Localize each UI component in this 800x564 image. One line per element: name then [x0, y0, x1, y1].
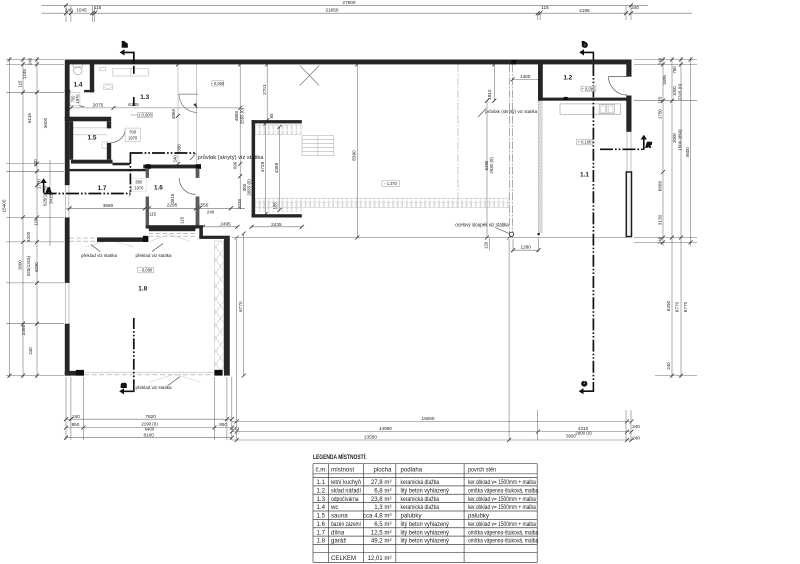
- svg-text:240: 240: [33, 159, 38, 167]
- svg-text:3200: 3200: [26, 231, 31, 242]
- svg-text:průvlak (skrytý) viz statika: průvlak (skrytý) viz statika: [198, 154, 264, 161]
- left dimension chains: [9, 57, 11, 378]
- door 1.6 west: [129, 180, 145, 196]
- window west 1.7 opening: [64, 185, 66, 217]
- svg-text:cca 4,8 m²: cca 4,8 m²: [363, 513, 391, 520]
- svg-text:ocelový sloupek viz statika: ocelový sloupek viz statika: [455, 222, 509, 228]
- svg-text:240: 240: [658, 236, 663, 244]
- svg-text:12,01 m²: 12,01 m²: [367, 555, 391, 562]
- svg-text:240: 240: [28, 57, 33, 65]
- svg-text:1970: 1970: [128, 135, 138, 140]
- svg-text:850: 850: [219, 422, 227, 427]
- svg-text:8100: 8100: [143, 432, 154, 437]
- wc toilet: [73, 64, 83, 67]
- svg-text:115: 115: [180, 216, 185, 224]
- svg-text:1.2: 1.2: [317, 487, 326, 494]
- svg-text:místnost: místnost: [331, 466, 354, 473]
- section line C: [592, 64, 594, 382]
- right dimension chains: [662, 57, 664, 246]
- svg-text:3415: 3415: [49, 194, 54, 204]
- svg-text:- 1,370: - 1,370: [384, 181, 397, 186]
- svg-text:1000: 1000: [672, 86, 677, 96]
- svg-text:6115: 6115: [27, 113, 32, 123]
- svg-text:240: 240: [632, 435, 640, 440]
- svg-text:průvlak (skrytý) viz statika: průvlak (skrytý) viz statika: [485, 108, 537, 114]
- gray projection band of wall 1.2: [538, 101, 543, 233]
- svg-text:15400: 15400: [2, 199, 7, 212]
- partition thin lines room 1.3: [177, 64, 179, 163]
- door stop square 1.2: [564, 97, 568, 100]
- svg-text:1750: 1750: [658, 109, 663, 119]
- svg-text:240: 240: [631, 5, 639, 10]
- garage door opening dashes: [84, 371, 214, 373]
- section line A middle: [130, 152, 196, 154]
- vertical dim 1810: [493, 64, 495, 100]
- svg-text:1700: 1700: [37, 179, 42, 189]
- door label 800/1970 1.6 (horizontal): [132, 178, 147, 191]
- svg-text:85: 85: [269, 113, 274, 118]
- garage west wall lower: [65, 324, 70, 376]
- section marker Cp: [582, 52, 593, 60]
- svg-text:6290: 6290: [666, 300, 671, 311]
- svg-text:1280: 1280: [520, 245, 531, 250]
- dim 1400: [513, 78, 541, 80]
- section marker C: [582, 382, 594, 391]
- svg-text:2000: 2000: [672, 133, 677, 143]
- svg-text:115: 115: [658, 96, 663, 104]
- svg-text:ker.obklad v= 1500mm + malba: ker.obklad v= 1500mm + malba: [468, 496, 536, 503]
- svg-text:4729: 4729: [260, 161, 265, 172]
- top dimension chain row2: [42, 12, 693, 14]
- garage north wall east part: [199, 236, 230, 239]
- svg-text:27,8 m²: 27,8 m²: [371, 479, 392, 486]
- svg-text:B’: B’: [123, 41, 129, 47]
- svg-text:překlad viz statika: překlad viz statika: [136, 253, 172, 258]
- svg-text:± 0,000: ± 0,000: [138, 113, 152, 118]
- left outer wall upper: [65, 60, 70, 186]
- garage south wall pieces: [65, 371, 84, 376]
- dim line 2075/6185: [66, 107, 240, 109]
- bottom dimension chains: [66, 418, 232, 420]
- svg-text:185: 185: [273, 202, 278, 210]
- section line B top: [133, 52, 135, 75]
- svg-text:7620: 7620: [145, 414, 156, 419]
- door label 700/1970 wc: [70, 92, 80, 105]
- svg-text:C’: C’: [583, 41, 589, 47]
- svg-text:1045: 1045: [76, 8, 87, 13]
- section line A left: [44, 193, 131, 195]
- sauna 1.5 north wall: [65, 117, 111, 122]
- svg-text:- 0,080: - 0,080: [139, 268, 152, 273]
- svg-text:překlad viz statika: překlad viz statika: [136, 385, 172, 390]
- svg-text:4195: 4195: [579, 8, 590, 13]
- 1.6 east wall: [196, 168, 200, 178]
- svg-text:keramická dlažba: keramická dlažba: [401, 496, 440, 503]
- svg-text:12,5 m²: 12,5 m²: [371, 529, 392, 536]
- svg-text:odpočívárna: odpočívárna: [331, 496, 359, 503]
- steel column dot near 1.2: [538, 233, 540, 235]
- svg-text:garáž: garáž: [331, 538, 346, 545]
- X cross mark: [300, 66, 319, 86]
- 1.2 south wall: [538, 98, 627, 101]
- kitchen counter: [560, 104, 621, 114]
- sauna 1.5 south wall: [71, 160, 113, 164]
- right outer wall mid segment: [626, 96, 631, 132]
- door sauna 1.5: [111, 128, 125, 142]
- vertical dim 8390: [356, 64, 358, 237]
- svg-text:keramická dlažba: keramická dlažba: [401, 479, 440, 486]
- svg-text:1970: 1970: [75, 94, 80, 104]
- svg-text:240: 240: [658, 57, 663, 65]
- svg-text:1.3: 1.3: [317, 496, 326, 503]
- B axis dot on top wall: [133, 61, 135, 63]
- svg-text:6400: 6400: [145, 427, 155, 432]
- svg-text:LEGENDA MÍSTNOSTÍ:: LEGENDA MÍSTNOSTÍ:: [313, 453, 367, 461]
- svg-text:2315 (0): 2315 (0): [678, 83, 683, 100]
- 1.7 north wall: [70, 169, 147, 171]
- svg-text:1.1: 1.1: [317, 479, 326, 486]
- wc 1.4 east wall: [90, 60, 94, 93]
- svg-text:1695: 1695: [662, 75, 667, 85]
- svg-text:1.1: 1.1: [580, 171, 589, 178]
- svg-text:240: 240: [28, 347, 33, 355]
- 1.6 north wall: [143, 165, 201, 169]
- svg-text:600: 600: [232, 161, 237, 169]
- door partition 1.3: [179, 93, 199, 95]
- svg-text:1970: 1970: [134, 186, 144, 191]
- svg-text:240: 240: [666, 362, 671, 370]
- svg-text:120: 120: [484, 241, 489, 249]
- svg-text:+ 0,095: + 0,095: [582, 86, 596, 91]
- svg-text:2701: 2701: [262, 84, 267, 95]
- garage lintel diagonals: [150, 234, 170, 242]
- svg-text:omítka vápenno-štuková, malba: omítka vápenno-štuková, malba: [468, 538, 539, 545]
- svg-text:1.6: 1.6: [317, 521, 326, 528]
- svg-text:240: 240: [632, 424, 640, 429]
- dim 1280: [513, 249, 539, 251]
- svg-text:ker.obklad v= 1500mm + malba: ker.obklad v= 1500mm + malba: [468, 479, 536, 486]
- svg-text:8390: 8390: [352, 150, 357, 161]
- svg-text:- 0,060: - 0,060: [211, 81, 224, 86]
- furniture room 1.3 benches: [113, 68, 131, 76]
- doors: [70, 77, 627, 197]
- svg-text:800: 800: [135, 180, 143, 185]
- garage west wall upper: [65, 217, 70, 283]
- pool inner dims 4729/4369: [265, 123, 267, 214]
- svg-text:6770: 6770: [683, 301, 688, 312]
- garage-1.6 connector wall: [199, 225, 203, 237]
- level boxes: [138, 112, 153, 117]
- section line A right: [600, 148, 644, 150]
- svg-text:6680: 6680: [658, 180, 663, 191]
- in-plan dimensions: [66, 62, 542, 377]
- svg-text:2030: 2030: [237, 198, 242, 209]
- section marker Ap: [643, 138, 645, 150]
- svg-text:6,5 m²: 6,5 m²: [374, 521, 391, 528]
- svg-text:3130: 3130: [658, 214, 663, 225]
- dim line 3680/2295/1550: [66, 207, 245, 209]
- svg-text:2930 (0): 2930 (0): [489, 157, 494, 174]
- svg-text:litý beton vyhlazený: litý beton vyhlazený: [401, 538, 450, 545]
- svg-text:1810: 1810: [487, 89, 492, 100]
- svg-text:litý beton vyhlazený: litý beton vyhlazený: [401, 529, 450, 536]
- svg-text:625(1315): 625(1315): [26, 255, 31, 276]
- svg-text:6290: 6290: [34, 262, 39, 272]
- 1.6 west wall: [146, 168, 149, 178]
- svg-text:B: B: [122, 382, 128, 387]
- section lines: [40, 41, 652, 394]
- svg-text:1400: 1400: [520, 74, 531, 79]
- svg-text:27600: 27600: [342, 0, 355, 5]
- wall stub east of 1.5: [113, 163, 130, 166]
- door 1.2: [609, 76, 628, 78]
- svg-text:ker.obklad v= 1500mm + malba: ker.obklad v= 1500mm + malba: [468, 504, 536, 511]
- dimension chains: [2, 0, 698, 442]
- svg-text:palubky: palubky: [401, 513, 423, 520]
- stairs: [302, 136, 334, 156]
- svg-text:240: 240: [207, 210, 215, 215]
- section marker A: [43, 181, 45, 193]
- svg-text:2900 (0): 2900 (0): [575, 431, 592, 436]
- svg-text:1,3 m²: 1,3 m²: [374, 504, 391, 511]
- right outer wall top segment: [626, 60, 631, 77]
- svg-text:115: 115: [18, 80, 23, 88]
- svg-text:wc: wc: [330, 504, 338, 511]
- top outer wall: [66, 60, 632, 65]
- 1.6 south wall: [146, 225, 200, 228]
- terrace south edge line: [232, 237, 627, 239]
- svg-text:povrch stěn: povrch stěn: [468, 466, 496, 473]
- door 1.6 east: [179, 178, 196, 195]
- svg-text:keramická dlažba: keramická dlažba: [401, 504, 440, 511]
- door label 700/1970 sauna (horizontal): [125, 128, 140, 141]
- svg-text:podlaha: podlaha: [401, 466, 423, 473]
- svg-text:+ 0,100: + 0,100: [578, 140, 592, 145]
- svg-text:2555 (0): 2555 (0): [240, 107, 245, 124]
- svg-text:letní kuchyň: letní kuchyň: [331, 479, 361, 486]
- svg-text:omítka vápenno-štuková, malba: omítka vápenno-štuková, malba: [468, 487, 539, 494]
- svg-text:1550: 1550: [198, 203, 209, 208]
- vertical dim 4860/2350: [176, 62, 180, 66]
- svg-text:palubky: palubky: [468, 513, 490, 520]
- svg-text:49,2 m²: 49,2 m²: [371, 538, 392, 545]
- svg-text:14950: 14950: [379, 426, 392, 431]
- svg-text:2815: 2815: [170, 193, 175, 203]
- hidden beam line left of 1.1: [457, 64, 459, 207]
- svg-text:6480: 6480: [484, 160, 489, 170]
- section marker Bp: [123, 52, 134, 60]
- section line A jog vertical: [129, 153, 131, 194]
- 1.2 west wall: [538, 60, 543, 101]
- washbasin: [104, 84, 113, 90]
- vertical dim 2701: [266, 64, 268, 120]
- svg-text:19260: 19260: [421, 416, 434, 421]
- pool deck band: [255, 198, 509, 207]
- svg-text:2495: 2495: [220, 222, 231, 227]
- garage right wall: [224, 239, 230, 376]
- dotted projection line of wall 1.2: [538, 101, 540, 237]
- svg-text:6770: 6770: [238, 301, 243, 312]
- svg-text:240: 240: [172, 155, 177, 163]
- right outer wall pillar segment: [626, 172, 631, 237]
- svg-text:240: 240: [72, 414, 80, 419]
- svg-text:1.8: 1.8: [138, 286, 147, 293]
- svg-text:1.4: 1.4: [74, 81, 83, 88]
- sauna 1.5 east wall: [107, 121, 111, 128]
- svg-text:2435: 2435: [271, 222, 282, 227]
- svg-text:litý beton vyhlazený: litý beton vyhlazený: [401, 521, 450, 528]
- svg-text:240: 240: [231, 426, 239, 431]
- svg-text:115: 115: [149, 211, 157, 216]
- legend table: [313, 453, 539, 563]
- svg-text:CELKEM: CELKEM: [331, 555, 356, 562]
- pool walls: [252, 120, 302, 123]
- svg-text:sklad nářadí: sklad nářadí: [331, 487, 361, 494]
- svg-text:850: 850: [72, 422, 80, 427]
- svg-text:6,8 m²: 6,8 m²: [374, 487, 391, 494]
- svg-text:1.8: 1.8: [317, 538, 326, 545]
- window garage west: [64, 283, 66, 324]
- vertical dim x=240 4860/2555: [239, 64, 241, 208]
- svg-text:C: C: [583, 381, 589, 386]
- top dimension chain 27600: [42, 4, 649, 6]
- svg-text:1.6: 1.6: [154, 184, 163, 191]
- svg-text:bazén zázemí: bazén zázemí: [331, 521, 361, 528]
- svg-text:3680: 3680: [103, 203, 114, 208]
- svg-text:2000: 2000: [18, 260, 23, 270]
- svg-text:115: 115: [34, 218, 39, 226]
- gray plan underlay: [65, 64, 631, 382]
- walls: [65, 60, 632, 376]
- garage north openings dashed: [70, 237, 97, 239]
- svg-text:8600: 8600: [685, 147, 690, 157]
- svg-text:6770: 6770: [675, 301, 680, 312]
- garage north wall west part: [97, 237, 148, 242]
- section marker B: [122, 383, 134, 391]
- svg-text:21650: 21650: [325, 8, 338, 13]
- svg-text:4860: 4860: [171, 108, 176, 119]
- svg-text:1.7: 1.7: [98, 185, 107, 192]
- svg-text:13550: 13550: [364, 435, 377, 440]
- svg-text:4369: 4369: [274, 162, 279, 173]
- svg-text:2385: 2385: [21, 324, 26, 335]
- svg-text:litý beton vyhlazený: litý beton vyhlazený: [401, 487, 450, 494]
- svg-text:překlad viz statika: překlad viz statika: [81, 253, 117, 258]
- svg-text:1.7: 1.7: [317, 529, 326, 536]
- hidden beam dashdot pair (steel column axis): [509, 64, 511, 237]
- svg-text:omítka vápenno-štuková, malba: omítka vápenno-štuková, malba: [468, 529, 539, 536]
- svg-text:3600: 3600: [43, 117, 48, 128]
- svg-text:A’: A’: [646, 143, 652, 149]
- svg-text:750: 750: [672, 66, 677, 74]
- svg-text:sauna: sauna: [331, 513, 348, 520]
- svg-text:dílna: dílna: [331, 529, 345, 536]
- svg-text:1.5: 1.5: [88, 135, 97, 142]
- svg-text:1.5: 1.5: [317, 513, 326, 520]
- svg-text:23,8 m²: 23,8 m²: [371, 496, 392, 503]
- door wc 1.4: [70, 92, 84, 106]
- svg-text:plocha: plocha: [374, 466, 393, 473]
- svg-text:115: 115: [541, 5, 549, 10]
- svg-text:1.3: 1.3: [140, 94, 149, 101]
- svg-text:1245: 1245: [22, 69, 27, 79]
- sauna benches: [72, 127, 107, 129]
- black junction on top wall: [511, 60, 516, 65]
- svg-text:2075: 2075: [93, 102, 104, 107]
- wc 1.4 south wall: [65, 90, 70, 92]
- vertical dim 6480/2930: [486, 101, 488, 238]
- svg-text:4860: 4860: [234, 110, 239, 121]
- svg-text:A: A: [47, 189, 52, 195]
- pool inner top stripe: [255, 125, 302, 135]
- pool lower stripe: [255, 199, 302, 212]
- svg-text:1.4: 1.4: [317, 504, 326, 511]
- window right wall: [626, 132, 628, 172]
- svg-text:č.m.: č.m.: [316, 466, 328, 473]
- dim 6770 garage: [243, 234, 245, 376]
- dim line 2495/2435: [203, 226, 238, 228]
- svg-text:700: 700: [129, 129, 137, 134]
- svg-text:1.2: 1.2: [563, 75, 572, 82]
- garage right wall insulation hatch: [215, 241, 224, 370]
- svg-text:ker.obklad v= 1500mm + malba: ker.obklad v= 1500mm + malba: [468, 521, 536, 528]
- svg-text:1500 (850): 1500 (850): [678, 129, 683, 151]
- svg-text:2055 (0): 2055 (0): [247, 179, 252, 196]
- sauna 1.5 west lining: [70, 121, 74, 159]
- section line B bottom: [133, 318, 135, 384]
